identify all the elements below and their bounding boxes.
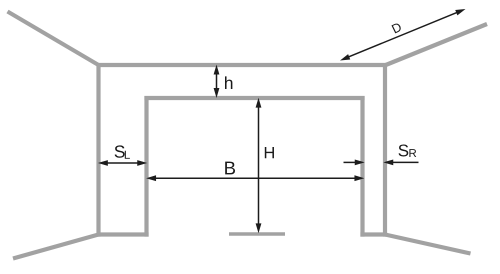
wall: top-left perspective diagonal [8, 12, 99, 66]
dimension SR left arrowhead pointing right [356, 161, 363, 165]
wall: top lintel horizontal [97, 63, 387, 67]
label SR: S [399, 144, 409, 156]
dimension H arrowhead top [257, 100, 261, 107]
opening: inner left vertical [144, 96, 148, 237]
label h [225, 76, 232, 89]
wall: left outer vertical [96, 63, 100, 237]
label SR: subscript R [409, 149, 416, 157]
dimension D arrowhead upper-right [456, 10, 463, 14]
dimension h arrow line [216, 69, 218, 94]
floor threshold bar [229, 232, 285, 236]
left jamb bottom horizontal [97, 232, 149, 236]
dimension SR right arrowhead pointing left [386, 161, 393, 165]
right jamb bottom horizontal [360, 232, 387, 236]
dimension B arrowhead left [149, 176, 156, 180]
label D (rotated along arrow) [391, 24, 400, 34]
dimension SR left line [344, 161, 357, 163]
dimension H arrow line [258, 102, 260, 229]
dimension D arrowhead lower-left [343, 55, 350, 59]
dimension h arrowhead bottom [215, 89, 219, 96]
dimension SR right line [392, 161, 419, 163]
dimension H arrowhead bottom [257, 224, 261, 231]
dimension SL arrow line [102, 162, 143, 164]
dimension SL arrowhead right [138, 161, 145, 165]
opening: inner top horizontal [144, 96, 364, 100]
wall: right outer vertical [383, 63, 387, 237]
wall: top-right perspective diagonal [385, 24, 488, 66]
label B [225, 162, 235, 175]
label H [265, 147, 274, 158]
opening: inner right vertical [360, 96, 364, 237]
dimension SL arrowhead left [101, 161, 108, 165]
dimension B arrow line [151, 177, 361, 179]
label SL: subscript L [125, 151, 130, 159]
wall: bottom-right perspective diagonal [385, 235, 471, 254]
dimension h arrowhead top [215, 67, 219, 74]
dimension D arrow line [345, 11, 462, 59]
label SL: S [115, 145, 125, 157]
wall: bottom-left perspective diagonal [13, 235, 99, 259]
dimension B arrowhead right [355, 176, 362, 180]
